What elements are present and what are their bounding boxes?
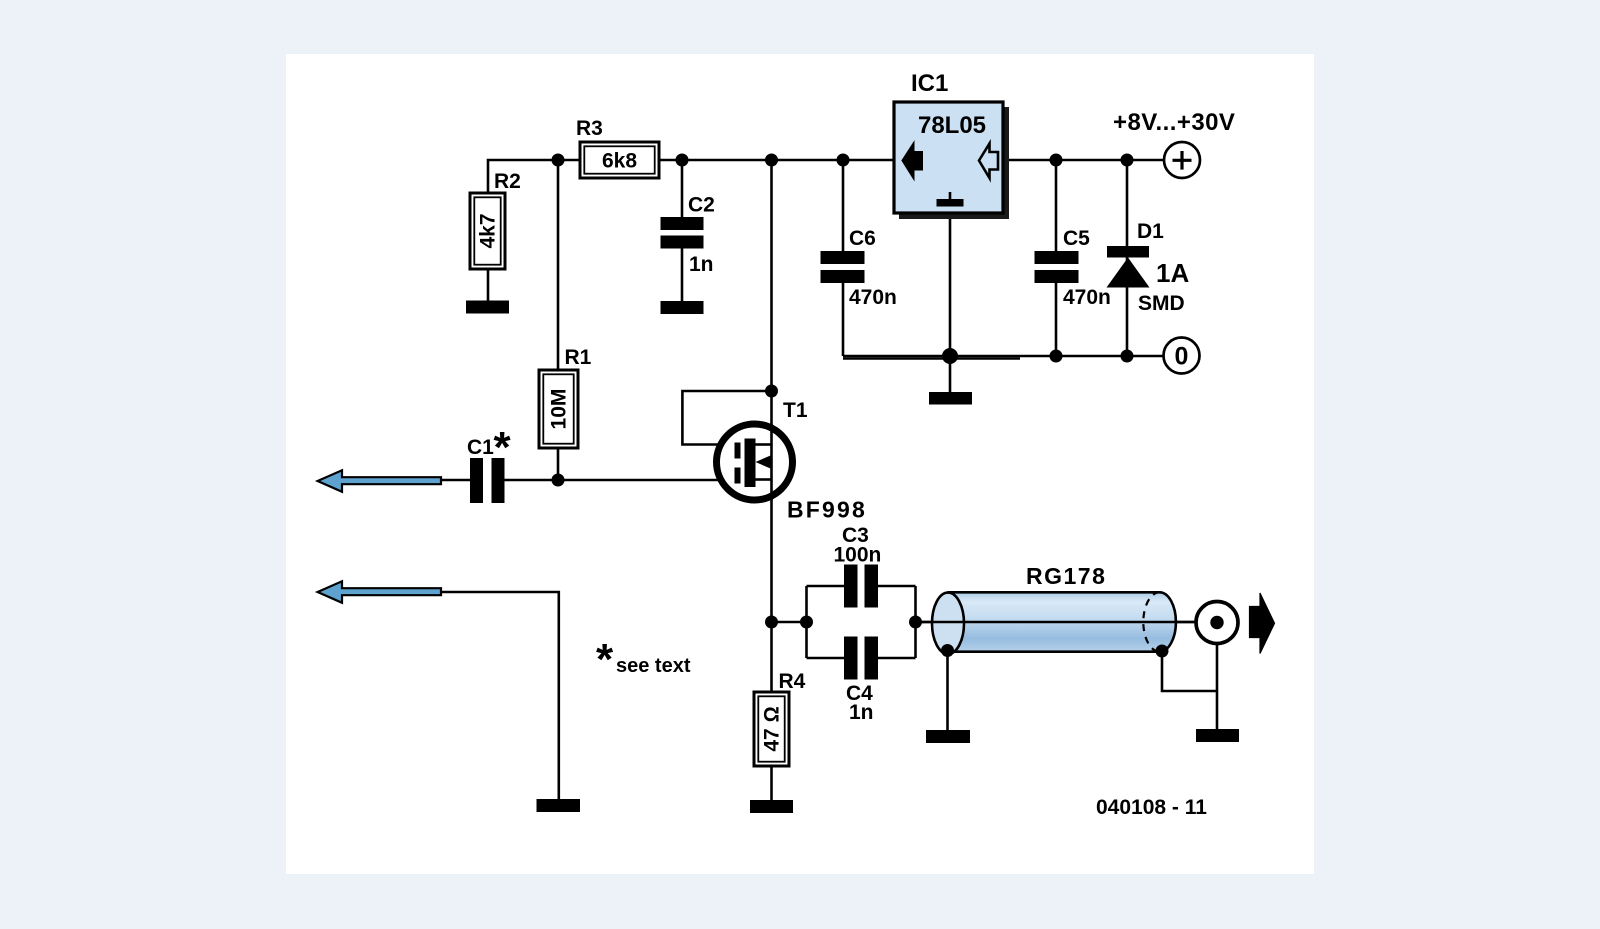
white schematic panel [286,54,1314,874]
transistor T1 BF998 [717,424,793,500]
svg-text:*: * [494,423,512,472]
wire top 5V rail left segment [488,160,894,193]
svg-text:RG178: RG178 [1026,563,1106,589]
node R2/R3 junction [552,154,565,167]
wire drain/source vertical line [770,160,773,692]
svg-text:*: * [596,635,614,684]
wire C5 lower stem [1055,283,1058,356]
ground (coax left shield) [926,730,970,743]
wire C4 bottom branch [807,657,845,660]
wire input line 2 to ground [441,592,559,799]
pin arrow output (left, filled) [903,144,923,179]
wire C6 stem [842,160,845,251]
node coax left shield junction [941,644,954,657]
wire connector to ground [1216,643,1219,729]
svg-text:R1: R1 [565,346,592,369]
wire IC1 ground stem [949,213,952,392]
drain stub [756,443,772,446]
channel bar [745,439,756,488]
node C3C4 left bracket junction [800,616,813,629]
wire coax centre conductor overlay [916,621,1212,624]
capacitor C5 [1035,251,1079,283]
node C3C4 right bracket junction [909,616,922,629]
diode D1 [1107,246,1150,288]
svg-text:47 Ω: 47 Ω [761,706,784,751]
antenna input arrow 1 [318,470,441,492]
svg-text:C6: C6 [849,227,876,250]
wire bottom rail doubled stroke left part [843,357,1020,359]
node D1 bottom junction [1121,350,1134,363]
source stub [756,478,772,481]
resistor R4 [754,692,789,766]
ground (below IC1) [929,392,972,405]
svg-text:R2: R2 [494,170,521,193]
gate electrode dashes [735,443,741,459]
wire coax left shield to ground [946,651,949,730]
capacitor C4 [844,637,878,680]
capacitor C6 [821,251,865,283]
wire source node to C3/C4 bracket [772,621,807,624]
capacitor C3 [844,565,878,608]
resistor R2 [470,193,505,269]
wire C1 to gate G1 of T1 [504,479,735,482]
svg-text:78L05: 78L05 [918,112,986,139]
svg-text:470n: 470n [1063,286,1111,309]
svg-text:R3: R3 [576,117,603,140]
node C5 bottom junction [1050,350,1063,363]
node + terminal (+8V...+30V) [1164,142,1200,178]
svg-text:4k7: 4k7 [477,213,500,248]
node drain junction top [765,154,778,167]
ground (input line 2) [537,799,581,812]
wire R1 branch vertical [557,160,560,480]
svg-text:BF998: BF998 [787,497,867,523]
node IC1 ground junction [942,348,958,364]
wire D1 branch [1126,160,1129,356]
svg-text:100n: 100n [834,544,882,567]
pin arrow input (right, outline) [979,144,998,179]
node source/C3C4 junction [765,616,778,629]
ground (below R2) [466,301,509,314]
wire gate G2 loop [682,391,771,445]
svg-text:SMD: SMD [1138,292,1185,315]
wire C3/C4 left bracket [805,586,808,658]
wire C6 lower stem [842,283,845,356]
wire coax centre conductor [916,621,1213,624]
resistor R1 [539,370,578,448]
capacitor C2 [661,217,704,249]
node 0 terminal [1164,338,1200,374]
ground (below R4) [750,800,793,813]
coax cable RG178 [916,592,1212,654]
capacitor C1 [470,458,505,503]
wire R2 stem to ground [487,269,490,301]
svg-text:D1: D1 [1137,220,1164,243]
wire C3 top branch [807,585,845,588]
node C6 junction [837,154,850,167]
svg-text:10M: 10M [548,389,571,430]
node D1 junction [1121,154,1134,167]
ground tab inside IC1 [949,192,952,199]
wire C4 to right bracket [878,657,916,660]
bulk arrow [762,461,772,463]
wire top rail right segment from IC1 to + terminal [1003,159,1164,162]
svg-text:0: 0 [1175,343,1189,371]
svg-text:C5: C5 [1063,227,1090,250]
junction dots [552,154,1169,658]
node G2/drain junction [765,385,778,398]
wire coax right shield jog [1162,651,1217,691]
node coax right shield junction [1156,645,1169,658]
svg-text:1n: 1n [849,701,874,724]
node G1/R1/C1 junction [552,474,565,487]
svg-text:C1: C1 [467,436,494,459]
wire C3 to right bracket [878,585,916,588]
wire C2 stem [681,160,684,217]
svg-text:C2: C2 [688,194,715,217]
svg-text:+8V...+30V: +8V...+30V [1113,109,1235,136]
svg-text:IC1: IC1 [911,70,948,97]
output connector [1196,602,1238,644]
node C5 junction [1050,154,1063,167]
output arrow [1250,593,1275,654]
wire bottom 0V rail [843,355,1164,358]
svg-text:1A: 1A [1156,258,1189,288]
svg-text:040108 - 11: 040108 - 11 [1096,796,1207,819]
svg-text:T1: T1 [783,399,808,422]
ground (connector shield) [1196,729,1239,742]
resistor R3 [580,142,659,178]
wire C5 stem [1055,160,1058,251]
node C2 junction [676,154,689,167]
svg-text:see text: see text [616,655,691,677]
wire R4 stem to ground [770,766,773,800]
wire C3/C4 right bracket [914,586,917,658]
svg-text:1n: 1n [689,253,714,276]
antenna input arrow 2 [318,581,441,603]
svg-text:470n: 470n [849,286,897,309]
ground (below C2) [661,301,704,314]
svg-text:R4: R4 [779,670,806,693]
wire input line 1 (antenna to C1) [441,479,470,482]
svg-text:6k8: 6k8 [602,150,637,173]
op-amp IC1 78L05 regulator box [894,102,1009,219]
wire C2 to ground [681,249,684,302]
